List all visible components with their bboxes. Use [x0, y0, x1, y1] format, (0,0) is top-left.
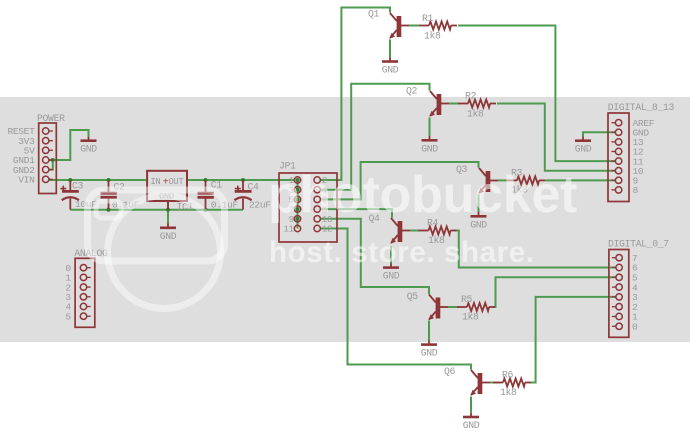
polarized capacitor C4 22uF [234, 180, 271, 211]
capacitor C2 0.1uF [101, 180, 140, 211]
wire R2 to DIGITAL_8_13 pin 10 [497, 104, 615, 171]
wire DIGITAL_8_13 GND pin to ground [583, 132, 615, 136]
DIGITAL_8_13 pin labels [633, 118, 655, 196]
wire IC1 OUT to JP1 pin1 5V bus [187, 179, 294, 181]
JP1 right column pin circles [314, 177, 320, 232]
ground [575, 137, 592, 155]
camera viewfinder [96, 201, 121, 218]
photobucket grey band [0, 97, 690, 342]
wire net N$1 Q1 collector to JP1 pin2 [320, 8, 390, 181]
wire R4 to DIGITAL_0_7 pin 6 [454, 231, 616, 268]
wire R3 to DIGITAL_8_13 pin 9 [545, 179, 615, 181]
JP1 pin number labels [283, 175, 332, 235]
wire Q5 base segment [448, 306, 458, 308]
ground [80, 137, 97, 155]
resistor R1 1k8 [419, 13, 457, 42]
ground [463, 413, 480, 431]
DIGITAL_0_7 pin labels [632, 253, 638, 333]
ground [160, 224, 177, 242]
ground [382, 58, 399, 76]
voltage regulator IC1 [147, 171, 193, 213]
resistor R4 1k8 [419, 218, 457, 247]
transistor Q1 [368, 9, 409, 39]
wire Q4 base segment [410, 230, 420, 232]
wire Q1 base segment [409, 25, 419, 27]
wire POWER GND1 to ground [49, 130, 88, 160]
resistor R3 1k8 [507, 168, 545, 196]
connector DIGITAL_0_7 [608, 239, 669, 338]
camera body [88, 190, 225, 261]
transistor Q6 [444, 366, 490, 396]
camera lens [108, 196, 221, 309]
connector DIGITAL_8_13 [608, 102, 675, 202]
wire Q4 emitter [390, 247, 392, 264]
wire Q3 emitter [478, 195, 480, 213]
transistor Q4 [369, 213, 411, 244]
transistor Q3 [456, 164, 498, 194]
wire net Q5 collector to JP1 pin10 [320, 219, 429, 294]
wire R1 to DIGITAL_8_13 pin 11 [458, 26, 615, 162]
wire net Q6 collector to JP1 pin12 [320, 229, 471, 370]
wire net Q2 collector to JP1 pin4 [320, 84, 429, 190]
ground [421, 136, 438, 154]
ANALOG pin labels [65, 263, 71, 323]
watermark text host store share [269, 236, 535, 270]
wire net Q4 collector to JP1 pin8 [320, 209, 392, 218]
resistor R5 1k8 [457, 294, 495, 323]
wire Q6 base segment [490, 382, 500, 384]
ground [470, 212, 487, 230]
junction dots [51, 158, 300, 221]
capacitor C1 0.1uF [198, 180, 239, 211]
wire R5 to DIGITAL_0_7 pin 5 [493, 277, 616, 307]
ground [421, 341, 438, 359]
wire IC1 GND to ground [167, 201, 169, 224]
wire Q1 emitter [389, 40, 391, 58]
wire Q3 base segment [498, 179, 509, 181]
wire Q2 emitter [429, 118, 431, 137]
transistor Q2 [406, 86, 449, 117]
wire R6 to DIGITAL_0_7 pin 3 [530, 297, 616, 383]
wire net Q3 collector to JP1 pin6 [320, 162, 478, 199]
connector JP1 [279, 161, 337, 243]
wire VIN bus to IC1 IN [49, 179, 147, 181]
connector POWER [37, 113, 65, 194]
wire Q5 emitter [428, 321, 430, 341]
connector ANALOG [74, 248, 108, 327]
resistor R2 1k8 [458, 91, 496, 120]
transistor Q5 [407, 291, 448, 320]
watermark text photobucket [268, 165, 577, 225]
wire Q2 base segment [449, 103, 459, 105]
polarized capacitor C3 10uF [60, 180, 97, 210]
wire Q6 emitter [470, 397, 472, 413]
ground [383, 264, 400, 282]
wire JP1 left pins bus [297, 180, 299, 229]
resistor R6 1k8 [493, 370, 531, 399]
wire GND2 stub [49, 160, 53, 170]
POWER pin labels [7, 126, 35, 185]
wire ground bus under capacitors [70, 209, 243, 211]
IC1 GND pin [167, 201, 169, 210]
